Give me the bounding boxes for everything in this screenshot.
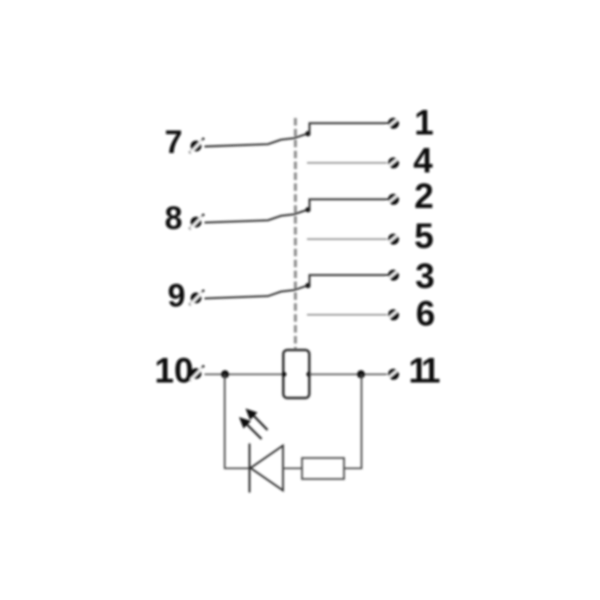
svg-text:3: 3: [415, 257, 434, 296]
svg-text:11: 11: [409, 352, 441, 391]
wire contact 6: [307, 314, 387, 316]
contact node 1: [305, 131, 310, 136]
wire coil to terminal 11: [309, 373, 387, 375]
wire to terminal 1: [308, 123, 389, 133]
terminal 4: [387, 156, 401, 168]
wire to terminal 2: [308, 199, 389, 209]
terminal 5: [387, 233, 401, 245]
svg-text:6: 6: [416, 295, 435, 334]
coil pin right: [306, 372, 311, 377]
terminal 2: [387, 193, 401, 205]
LED D1 arrow 1: [246, 409, 268, 431]
svg-text:9: 9: [168, 278, 186, 314]
svg-text:2: 2: [414, 177, 433, 216]
svg-text:8: 8: [165, 200, 183, 236]
wire resistor up to node 11: [344, 374, 362, 468]
svg-text:1: 1: [414, 104, 433, 143]
wire 10 to coil: [205, 373, 284, 375]
armature wire 8: [205, 210, 308, 223]
svg-text:4: 4: [413, 142, 433, 181]
LED D1 arrow 2: [239, 417, 262, 439]
armature wire 7: [205, 134, 308, 147]
terminal 3: [387, 269, 401, 281]
wire left drop: [225, 374, 250, 468]
wire LED to resistor: [283, 467, 302, 469]
terminal 1: [387, 117, 401, 129]
coil K1: [283, 350, 309, 398]
coil pin left: [282, 372, 287, 377]
wire contact 5: [307, 238, 387, 240]
junction left: [221, 370, 229, 378]
svg-text:7: 7: [165, 124, 183, 160]
wire contact 4: [307, 162, 387, 164]
dashed actuator line: [294, 118, 297, 350]
junction right: [357, 370, 365, 378]
svg-text:10: 10: [155, 352, 194, 391]
LED D1 cathode bar: [249, 444, 251, 493]
svg-text:5: 5: [414, 217, 433, 256]
wire to terminal 3: [308, 275, 389, 285]
LED D1 triangle: [251, 446, 284, 491]
terminal 8: [190, 214, 205, 229]
terminal 9: [190, 290, 205, 305]
armature wire 9: [205, 286, 308, 299]
contact node 2: [305, 207, 310, 212]
terminal 10: [190, 366, 205, 381]
contact node 3: [305, 283, 310, 288]
terminal 6: [387, 308, 401, 320]
terminal 7: [190, 138, 205, 153]
resistor R1: [302, 458, 344, 479]
terminal 11: [387, 368, 401, 380]
